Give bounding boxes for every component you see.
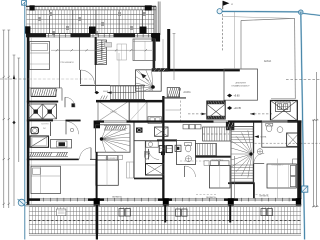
roof parapet blue stub right (303, 13, 320, 15)
wall A right x62 (61, 88, 63, 100)
wall under shower B (134, 178, 164, 180)
room lines right of core (166, 101, 182, 123)
svg-text:ΔΩΜΑ: ΔΩΜΑ (183, 91, 191, 94)
projection line x234 (233, 12, 235, 69)
wall below stair (96, 100, 163, 103)
wall y88 A (29, 87, 62, 89)
wall below stair C (228, 182, 253, 184)
door arc B bath (149, 149, 160, 160)
front wall upper band (96, 120, 302, 122)
wardrobe B X (155, 127, 169, 136)
interior dimension line y50 (51, 49, 152, 51)
section marker circle top (217, 9, 222, 14)
roof tiny note (0, 0, 1, 1)
dimension line left-3 (13, 55, 15, 206)
terrace column bottom-mid (89, 27, 96, 34)
sink hall D (257, 149, 263, 155)
partition CD wall (253, 123, 255, 183)
svg-text:ΒΕΡΑΝΤΑ: ΒΕΡΑΝΤΑ (206, 196, 216, 199)
upper small mark (105, 43, 112, 48)
svg-text:ΑΝΕΒ.: ΑΝΕΒ. (103, 90, 109, 93)
bedroom A right wall (59, 37, 61, 88)
balcony rail (26, 204, 301, 206)
door arc A bath (66, 121, 79, 134)
svg-text:ΥΠΝΟΔΩΜΑΤΙΟ: ΥΠΝΟΔΩΜΑΤΙΟ (271, 164, 284, 167)
stair C tall run (228, 127, 253, 183)
dim line top ticks (2, 30, 20, 58)
flag marker (north/section) (223, 1, 234, 9)
hatch strip A2 (29, 152, 68, 156)
wall below stair C v (230, 183, 232, 200)
label veranda D (259, 195, 269, 198)
label wc A (43, 128, 47, 130)
toilet B (145, 151, 150, 159)
terrace column top-left (30, 5, 35, 10)
section marker square right (302, 186, 308, 192)
dimension line right-1 (313, 120, 315, 207)
label bed C small (211, 158, 224, 161)
svg-text:ΔΩΜΑ: ΔΩΜΑ (264, 60, 272, 63)
roof thick wall horizontal y70 (167, 69, 240, 72)
section marker top-left (22, 1, 27, 6)
wall y85 hall (80, 84, 110, 86)
balcony bottom edge (29, 234, 301, 236)
bed D (267, 164, 296, 188)
bed A2 (31, 166, 60, 193)
roof box 2 (130, 102, 147, 121)
door gap wall A (53, 119, 66, 122)
diamond marker left (12, 121, 15, 125)
roof thick wall vertical x168 (167, 29, 170, 71)
right exterior wall (297, 120, 301, 199)
dimension line x174 (173, 33, 176, 80)
duct right wall (153, 38, 156, 68)
straight stair flight (107, 86, 145, 100)
dark hatched box C (226, 122, 234, 130)
wall bath C top (157, 139, 177, 141)
duct B dark (136, 128, 143, 133)
balcony divider 1 (96, 205, 98, 240)
closet cubbies C (183, 125, 201, 129)
shower B (146, 164, 165, 176)
roof dashed arrow a (188, 113, 206, 116)
door arc A bed (80, 148, 92, 160)
tall cabinet upper (117, 44, 126, 60)
svg-text:+9.60: +9.60 (234, 95, 241, 98)
bath wall B x134 (133, 122, 135, 178)
threshold hatch (101, 96, 108, 100)
roof parapet blue top (221, 10, 301, 13)
bath C (177, 141, 196, 165)
svg-text:ΒΕΡΑΝΤΑ: ΒΕΡΑΝΤΑ (259, 195, 269, 198)
parapet corner knot (299, 10, 304, 15)
roof dashed dim right (286, 78, 320, 80)
label stair note (95, 90, 110, 95)
hatch radiator B top (104, 125, 126, 130)
column bottom 4 (296, 198, 301, 205)
balcony divider 3 (229, 205, 231, 223)
wall y159 A (27, 159, 96, 161)
column bottom 3 (228, 198, 234, 205)
bed A1 (30, 42, 50, 70)
parapet inner line (222, 16, 294, 18)
svg-text:ΥΠΝΟΔΩΜΑΤΙΟ: ΥΠΝΟΔΩΜΑΤΙΟ (105, 157, 118, 160)
label bed B small (105, 157, 118, 160)
balcony table B (119, 209, 130, 216)
dimension line far-left-1 (3, 30, 5, 208)
centerline dashed left (0, 78, 92, 80)
roof parapet blue right (301, 12, 305, 240)
bottom front wall with windows (29, 198, 301, 202)
washer pair C (159, 146, 172, 153)
balcony tile grid (29, 207, 301, 234)
winder stair B (96, 123, 138, 155)
door arc bedroom A (65, 97, 75, 107)
roof label DOMA 2 (264, 60, 272, 63)
wall y101 A (27, 101, 58, 103)
balcony divider 2 (164, 205, 166, 223)
wardrobe A (29, 104, 57, 119)
svg-text:ΥΠΝΟΔΩΜΑΤΙΟ: ΥΠΝΟΔΩΜΑΤΙΟ (211, 158, 224, 161)
bed C (204, 161, 230, 188)
stair bulkhead (apolixi) (224, 69, 258, 100)
arrow kateb (254, 135, 267, 138)
partition x101 upper (101, 40, 103, 60)
wall above bed C (196, 156, 231, 158)
small dark rect A hall (72, 103, 76, 107)
level marker +9.60 (227, 94, 240, 98)
svg-text:ΛΟΥΤΡΟ: ΛΟΥΤΡΟ (41, 123, 49, 125)
svg-text:ΚΛΙΜΑΚΟΣΤΑΣΙΟΥ: ΚΛΙΜΑΚΟΣΤΑΣΙΟΥ (232, 84, 251, 87)
roof skylight box (207, 101, 225, 119)
section marker circle left-bottom (18, 199, 30, 206)
center line bed D (277, 159, 279, 199)
svg-text:+10.35: +10.35 (234, 107, 242, 110)
bed B (96, 155, 123, 185)
wall right of winder (163, 97, 186, 99)
hatch closet A (31, 88, 57, 96)
right dim ticks (313, 119, 318, 207)
label bedroom A (60, 61, 74, 64)
dashed line unit D (255, 142, 320, 144)
nightstand D (293, 159, 298, 164)
partition x94 upper (95, 37, 97, 92)
roof dashed arrow b (250, 113, 272, 116)
left dim ticks (3, 76, 10, 205)
dimension line left-4 (18, 58, 20, 162)
toilet A (31, 127, 38, 134)
desk B (127, 162, 134, 178)
hatched landing block (167, 88, 181, 97)
shower A (30, 136, 49, 147)
hatched lintel (152, 68, 169, 71)
sink counter B (146, 141, 158, 147)
column below void (94, 121, 100, 129)
faint wall x119 (118, 53, 120, 85)
wall y165 A (29, 164, 96, 166)
partition C left x96-ext (96, 152, 98, 199)
lift shaft box (271, 101, 298, 121)
door arc hall (81, 70, 95, 84)
dashed dim C (180, 160, 208, 162)
balcony table C (176, 209, 187, 216)
core partition wall x163 (162, 96, 164, 200)
dashed dim bed D (256, 194, 270, 196)
svg-text:ΥΠΝΟΔΩΜΑΤΙΟ: ΥΠΝΟΔΩΜΑΤΙΟ (60, 61, 74, 64)
balcony label box A (57, 209, 66, 216)
terrace bottom wall with windows (26, 33, 160, 37)
roof label DOMA 1 (183, 91, 191, 94)
svg-text:ΑΠΟΛΗΞΗ: ΑΠΟΛΗΞΗ (235, 82, 246, 85)
svg-text:ΚΑΤΕΒ.: ΚΑΤΕΒ. (260, 136, 267, 139)
column bottom 1 (94, 198, 100, 205)
svg-text:ΚΕΝΟ: ΚΕΝΟ (110, 111, 116, 113)
terrace right edge (154, 6, 156, 40)
dimension line right-2 (312, 72, 319, 207)
stair C lower flight (196, 144, 217, 156)
hatch closet hall (97, 40, 107, 65)
small box C dark (175, 145, 181, 151)
label veranda C (206, 196, 216, 199)
kitchen counter small (148, 117, 161, 124)
terrace column bottom-left (25, 26, 31, 33)
building edge above terrace (158, 2, 160, 36)
label bath A (41, 123, 49, 125)
winder stair main (127, 61, 161, 112)
section cut line left (blue) (24, 2, 26, 240)
bath D (262, 122, 299, 147)
door arc C (185, 166, 196, 177)
duct room above spiral (133, 39, 156, 61)
terrace pergola grid (27, 10, 155, 35)
corner column below terrace right (152, 33, 161, 42)
stair C upper flight (203, 127, 231, 141)
duct inner line (162, 39, 164, 68)
level marker +10.35 (227, 106, 242, 110)
towel ring A (70, 128, 73, 131)
terrace column bottom-right2 (140, 27, 147, 34)
left exterior wall (27, 33, 31, 205)
dashed projection line x222 (221, 14, 223, 52)
dimension line far-left-2 (8, 30, 10, 208)
svg-text:ΒΕΡΑΝΤΑ: ΒΕΡΑΝΤΑ (112, 196, 122, 199)
stair C side line (233, 156, 235, 199)
terrace column top-right (145, 5, 152, 10)
terrace top edge beam (26, 6, 156, 10)
label bed D small (271, 164, 284, 167)
balcony table D (261, 209, 272, 216)
partition D below stair (253, 182, 255, 199)
hall partition x79 (79, 37, 81, 70)
wall y120 A (27, 120, 81, 122)
bath A right wall (49, 122, 51, 136)
dashed dim bed C (196, 194, 216, 196)
shower D (287, 133, 300, 146)
column bottom 2 (163, 198, 169, 205)
roof slab outline (241, 18, 295, 98)
void opening (KENO) (98, 101, 129, 122)
door arc D (254, 153, 264, 163)
vanity A (51, 140, 72, 149)
bath B walls (134, 141, 165, 163)
duct B2 dark (161, 152, 165, 156)
label veranda B (112, 196, 122, 199)
